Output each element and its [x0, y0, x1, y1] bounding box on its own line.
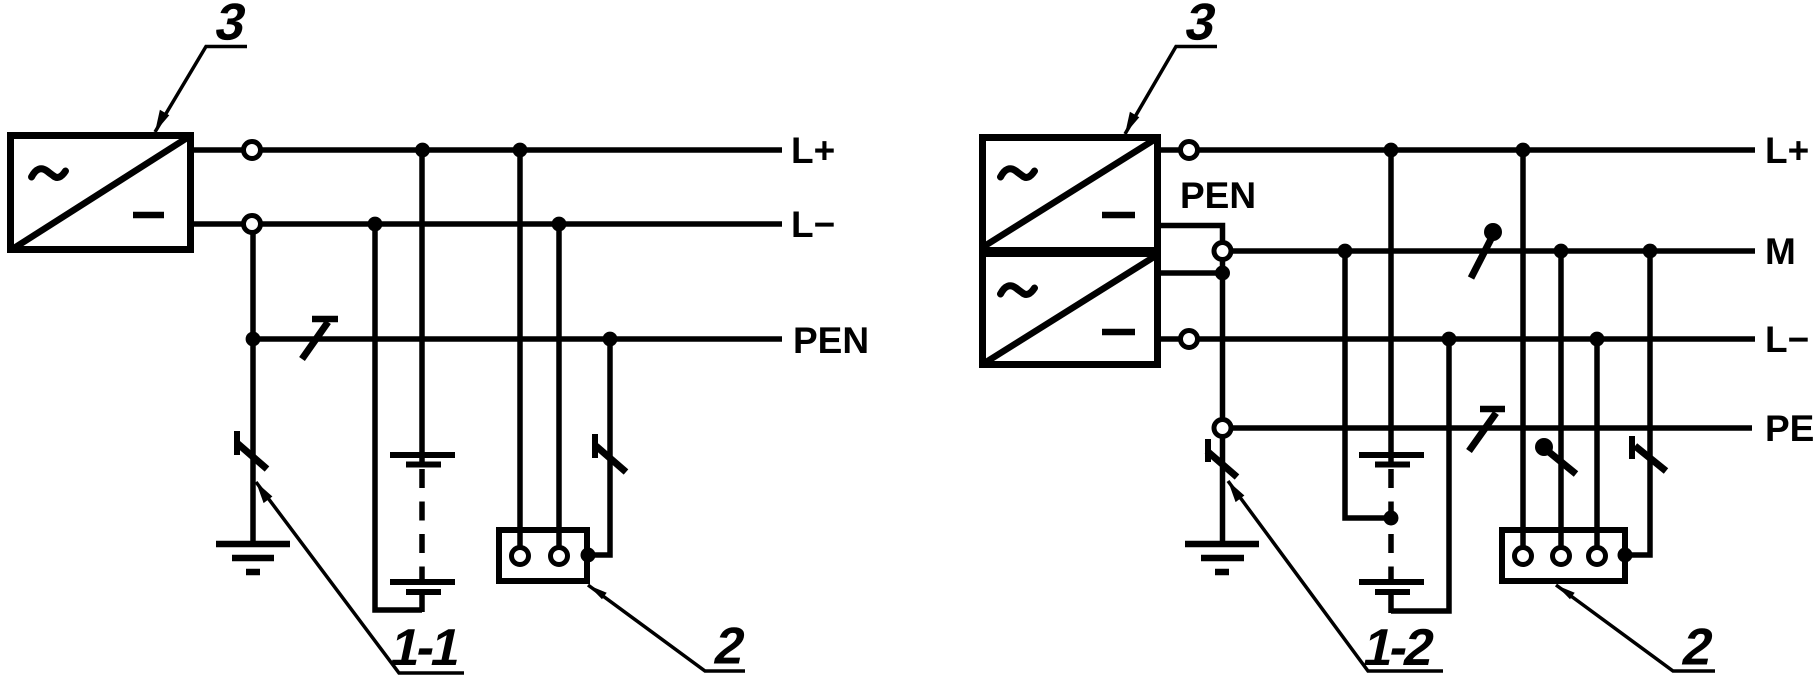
wire battery drop from L+ (right) — [1388, 150, 1394, 452]
leader arrowheads — [155, 110, 1575, 600]
node M/socket PE drop (right) — [1643, 244, 1658, 259]
svg-text:L−: L− — [791, 204, 835, 245]
switch symbol on M line — [1471, 239, 1491, 278]
battery B1 cell links — [419, 452, 425, 467]
converter U1 AC tilde — [32, 169, 66, 178]
label 3 (right) — [1180, 0, 1221, 51]
terminal L+ (right) — [1181, 142, 1198, 159]
node L+/socket pin1 (left) — [513, 143, 528, 158]
converter U2 body — [983, 138, 1158, 251]
arrowhead 1-1 — [256, 482, 272, 503]
svg-text:M: M — [1765, 231, 1796, 272]
converter U2 AC tilde — [1001, 169, 1035, 178]
disconnect link symbol on PE line — [1469, 409, 1505, 451]
terminal L- (right) — [1181, 331, 1198, 348]
terminal L- (left) — [244, 216, 261, 233]
leader for label 2 (right) — [1556, 585, 1715, 671]
converter U1 body — [11, 136, 191, 250]
leader for label 2 (left) — [588, 585, 745, 671]
svg-text:L+: L+ — [791, 130, 835, 171]
socket outlet box (left) — [499, 530, 587, 581]
terminal L+ (left) — [244, 142, 261, 159]
label 1-2 — [1358, 619, 1438, 677]
switch dot on M line — [1484, 223, 1502, 241]
node L+/battery (right) — [1384, 143, 1399, 158]
socket pin2 circle (left) — [551, 548, 568, 565]
wire battery mid tap to M — [1345, 251, 1391, 518]
socket pin1 circle (right) — [1515, 548, 1532, 565]
converter U3 AC tilde — [1001, 286, 1035, 295]
converter U3 diagonal — [983, 255, 1157, 364]
arrowhead 2 (right) — [1556, 585, 1575, 599]
node M/battery tap — [1338, 244, 1353, 259]
battery B1 top cell short plate — [406, 462, 441, 468]
wire PE line — [1223, 425, 1753, 431]
node socket PE pin (right) — [1618, 548, 1633, 563]
battery B1 bottom cell short plate — [406, 589, 441, 595]
wire PEN link converter1 to M terminal — [1161, 226, 1223, 252]
battery B1 top cell long plate — [390, 452, 455, 458]
wire socket pin2 drop from L- — [556, 224, 562, 556]
wire L+ (left) — [194, 147, 782, 153]
switch symbol on socket pin2 drop — [1549, 452, 1576, 474]
node L-/socket pin3 (right) — [1590, 332, 1605, 347]
node M/socket pin2 (right) — [1554, 244, 1569, 259]
svg-text:PEN: PEN — [793, 320, 869, 361]
node converter2 plus junction — [1215, 266, 1230, 281]
disconnect link symbol below PE terminal — [1207, 439, 1237, 477]
node battery mid tap (right) — [1384, 511, 1399, 526]
wire socket PE drop from PEN — [585, 339, 610, 555]
earth electrode symbol (left) — [216, 544, 290, 572]
disconnect link symbol on earth conductor — [237, 431, 267, 469]
converter U1 minus sign — [133, 212, 164, 219]
wire battery positive drop from L+ — [419, 150, 425, 452]
wire PEN (left) — [253, 336, 782, 342]
arrowhead 3 (right) — [1125, 112, 1139, 134]
arrowhead 1-2 — [1228, 481, 1244, 502]
node L-/battery return (left) — [368, 217, 383, 232]
svg-text:PE: PE — [1765, 408, 1813, 449]
battery B2 bottom cell short plate — [1375, 589, 1410, 595]
converter U2 diagonal — [983, 138, 1157, 247]
svg-text:L−: L− — [1765, 319, 1809, 360]
switch dot on socket pin2 drop — [1535, 438, 1553, 456]
label 2 (left) — [709, 617, 750, 675]
svg-text:L+: L+ — [1765, 130, 1809, 171]
arrowhead 3 (left) — [155, 110, 169, 132]
wire socket pin1 drop from L+ — [517, 150, 523, 556]
wire M line — [1223, 248, 1756, 254]
earth electrode symbol (right) — [1185, 544, 1259, 572]
battery B1 bottom cell long plate — [390, 579, 455, 585]
socket pin1 circle (left) — [512, 548, 529, 565]
node L-/socket pin2 (left) — [552, 217, 567, 232]
battery B2 bottom cell long plate — [1359, 579, 1424, 585]
wire socket pin1 drop from L+ (right) — [1520, 150, 1526, 556]
socket outlet box (right) — [1502, 530, 1625, 581]
disconnect link symbol on PEN line — [302, 319, 338, 359]
leader for label 3 (right) — [1125, 47, 1217, 135]
battery B2 cell links — [1388, 452, 1394, 467]
terminal M (right) — [1214, 243, 1231, 260]
node PEN/earth conductor — [246, 332, 261, 347]
terminal PE (right) — [1214, 420, 1231, 437]
battery B2 dashed mid link — [1388, 469, 1394, 580]
wire socket PE drop from M (right) — [1622, 251, 1650, 555]
wire battery negative return — [375, 224, 422, 610]
disconnect link symbol on socket PE drop — [595, 434, 626, 472]
converter U2 minus sign — [1102, 212, 1135, 219]
leader lines — [155, 47, 1715, 674]
leader for label 1-1 — [256, 482, 464, 673]
label 1-1 — [385, 619, 465, 677]
converter U3 body — [983, 254, 1158, 365]
wire socket pin3 drop from L- (right) — [1594, 339, 1600, 556]
node PEN/socket PE drop — [603, 332, 618, 347]
open terminal circles — [244, 142, 1606, 565]
battery B1 dashed mid link — [419, 469, 425, 580]
node L+/battery (left) — [415, 143, 430, 158]
wire earth conductor (L- terminal to earth) — [250, 224, 256, 541]
svg-text:PEN: PEN — [1180, 175, 1256, 216]
wire M/PE vertical (PEN conductor) — [1220, 251, 1226, 541]
label 2 (right) — [1677, 618, 1718, 676]
battery B2 top cell short plate — [1375, 462, 1410, 468]
node L-/battery return (right) — [1442, 332, 1457, 347]
leader for label 3 (left) — [155, 47, 247, 133]
wire L- (left) — [194, 221, 782, 227]
wire L+ (right) — [1161, 147, 1755, 153]
converter U3 minus sign — [1102, 329, 1135, 336]
label 3 (left) — [210, 0, 251, 51]
disconnect link symbol on socket PE drop (right) — [1632, 436, 1666, 471]
wire socket pin2 drop from M — [1558, 251, 1564, 556]
leader for label 1-2 — [1228, 481, 1443, 671]
node L+/socket pin1 (right) — [1516, 143, 1531, 158]
node socket PE pin (left) — [581, 548, 596, 563]
socket pin2 circle (right) — [1553, 548, 1570, 565]
battery B2 top cell long plate — [1359, 452, 1424, 458]
wire L- (right) — [1161, 336, 1755, 342]
wire battery negative return to L- (right) — [1391, 339, 1449, 611]
converter U1 diagonal — [11, 136, 190, 250]
socket pin3 circle (right) — [1589, 548, 1606, 565]
wire converter2 plus stub — [1161, 270, 1223, 276]
arrowhead 2 (left) — [588, 585, 607, 599]
